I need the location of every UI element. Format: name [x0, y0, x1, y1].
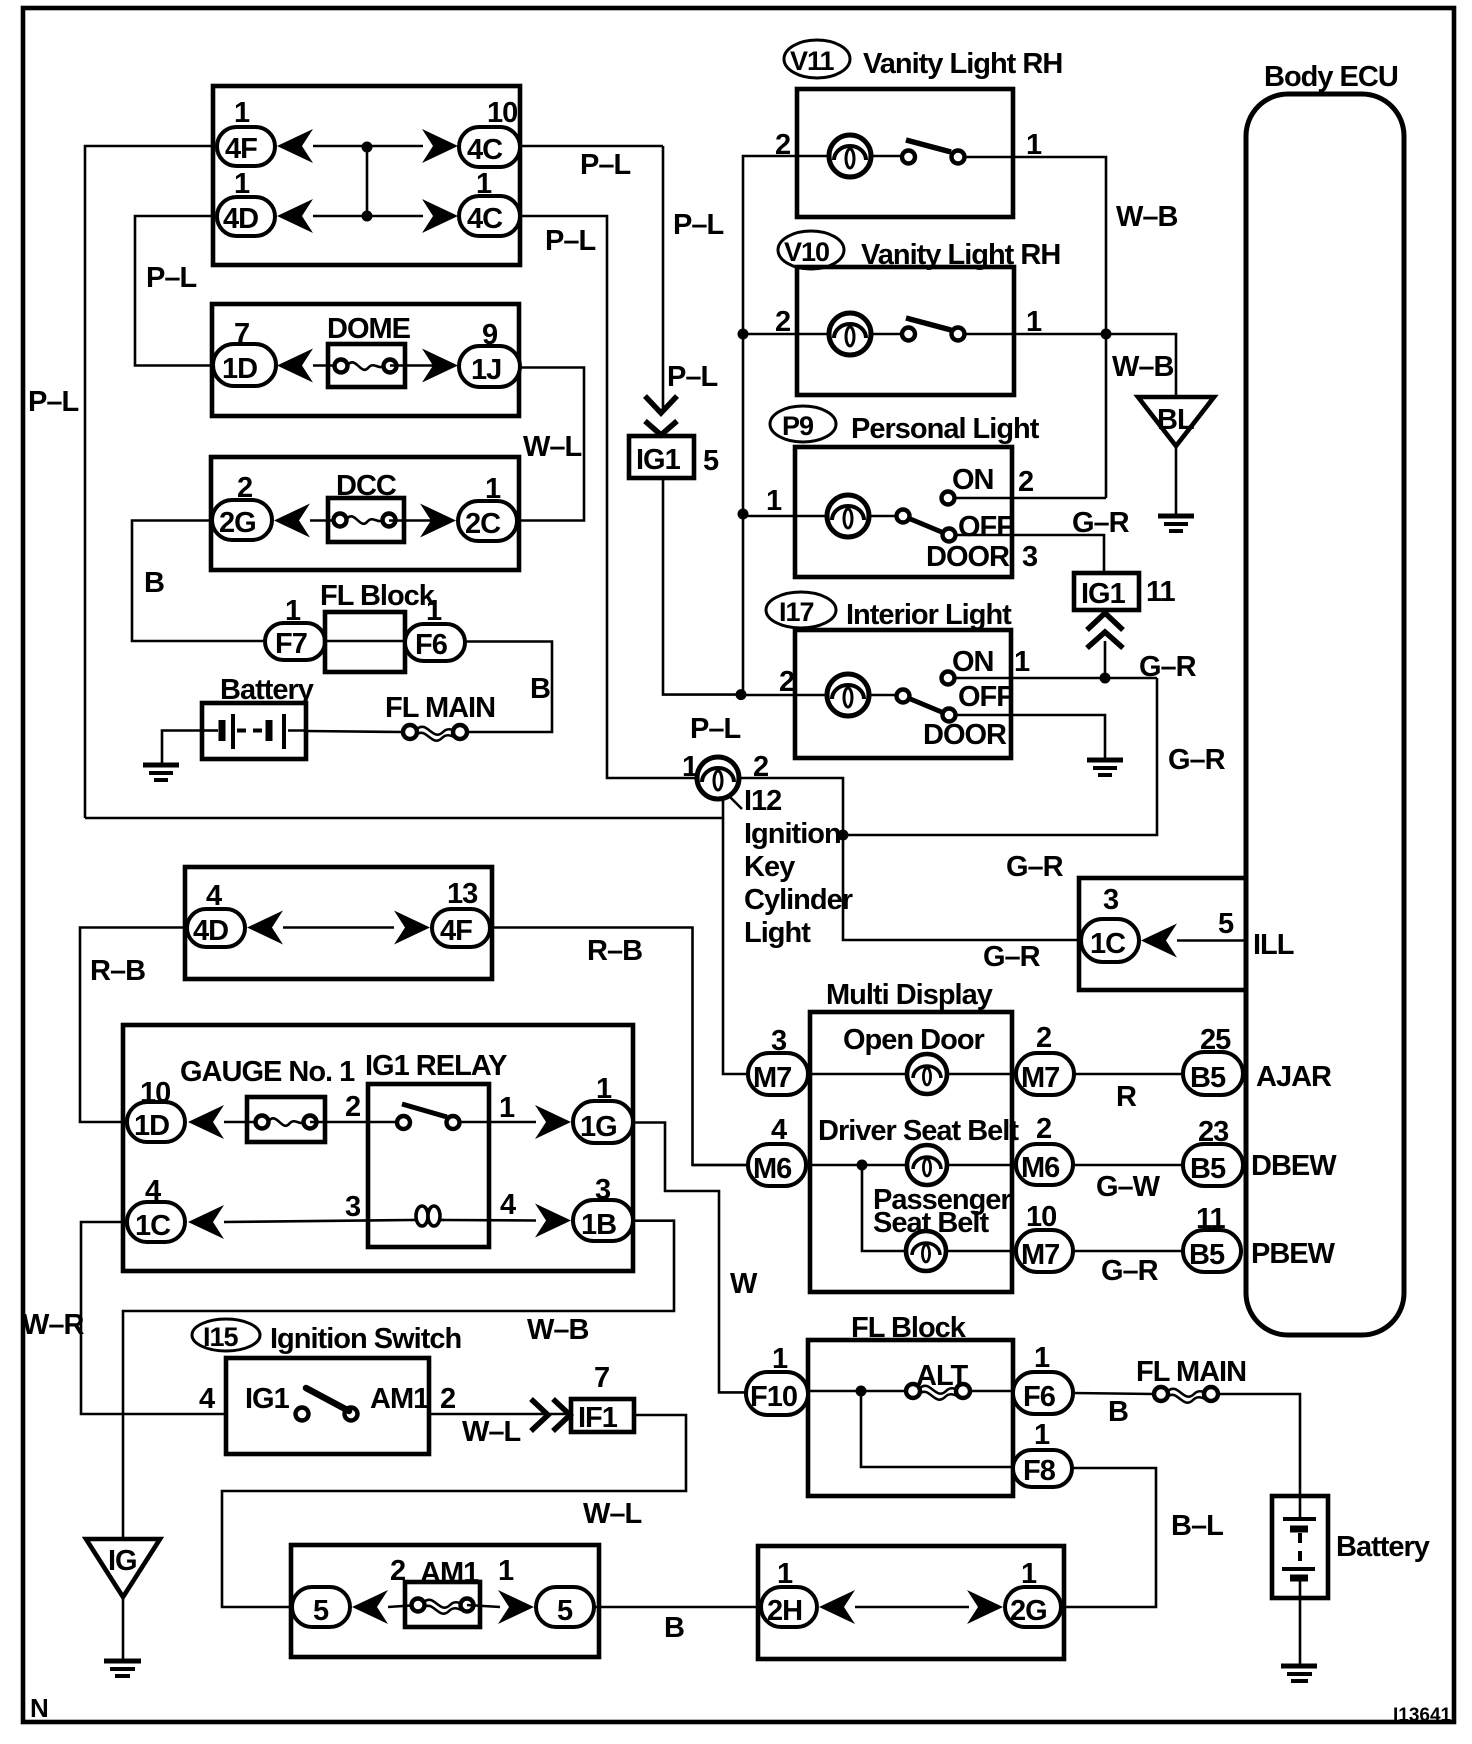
relay switch	[397, 1104, 460, 1129]
arrow into 2C	[420, 504, 456, 538]
svg-text:P–L: P–L	[580, 149, 630, 181]
SEC-TOPLEFT	[28, 86, 723, 818]
connector 1J pin 9	[459, 319, 520, 387]
svg-text:R–B: R–B	[90, 955, 145, 987]
arrow into 1D	[277, 349, 313, 383]
connector M7 pin 2 row1	[1016, 1022, 1074, 1095]
label G-R pbew	[1101, 1255, 1159, 1287]
svg-text:P9: P9	[782, 411, 814, 441]
wire 1D to fuse	[313, 364, 341, 367]
svg-text:5: 5	[1218, 908, 1234, 940]
connector M7 pin 3	[748, 1025, 808, 1095]
SEC-RELAY	[22, 867, 758, 1676]
arrow chevrons into IG1	[645, 396, 677, 435]
svg-text:7: 7	[594, 1362, 609, 1394]
svg-text:3: 3	[1022, 541, 1038, 573]
svg-text:V10: V10	[784, 237, 829, 267]
wire P9 ON pin2 to W-B	[955, 497, 1106, 500]
connector IG1 pin 5	[629, 436, 719, 478]
svg-text:W–L: W–L	[462, 1416, 521, 1448]
label W-B lower	[1112, 351, 1174, 383]
wire V11 pin1 W-B down	[1013, 157, 1106, 498]
fuse GAUGE No.1	[247, 1097, 325, 1142]
wire I17 pin2 to bus	[741, 694, 795, 697]
label I15 Ignition Switch	[192, 1319, 461, 1355]
label ON I17	[952, 646, 994, 678]
wire IG1 11 to junction	[1104, 641, 1107, 678]
label Battery right	[1336, 1531, 1430, 1563]
FL block body top	[325, 612, 405, 672]
ground IG triangle	[86, 1539, 160, 1660]
svg-text:10: 10	[487, 97, 517, 129]
svg-text:P–L: P–L	[28, 386, 78, 418]
svg-text:F8: F8	[1023, 1455, 1056, 1487]
label B fl main	[1108, 1396, 1128, 1428]
wire P-L down to IG1 connector	[662, 146, 665, 412]
switch V11	[871, 140, 1013, 164]
arrow into 1B	[535, 1204, 571, 1238]
label pin2 I12	[753, 751, 768, 783]
arrow into 1C relay	[188, 1205, 224, 1239]
SEC-MID	[629, 146, 1157, 973]
svg-text:P–L: P–L	[673, 209, 723, 241]
svg-text:F10: F10	[750, 1381, 797, 1413]
label W-L to IF1	[462, 1416, 521, 1448]
svg-text:4F: 4F	[440, 915, 472, 947]
svg-text:2: 2	[345, 1091, 360, 1123]
wire F6 to FL MAIN bottom	[1073, 1393, 1154, 1394]
label G-R vertical	[1168, 744, 1226, 776]
arrow into 2G	[274, 504, 310, 538]
svg-text:R: R	[1116, 1081, 1137, 1113]
svg-text:B: B	[144, 567, 164, 599]
svg-text:4F: 4F	[225, 133, 257, 165]
label W-L	[523, 431, 582, 463]
svg-text:1G: 1G	[580, 1111, 617, 1143]
label pin1 V10	[1026, 306, 1042, 338]
ground BL triangle	[1138, 397, 1214, 516]
svg-text:Multi Display: Multi Display	[826, 979, 993, 1011]
lamp driver seat belt	[907, 1145, 947, 1185]
svg-text:M7: M7	[753, 1062, 791, 1094]
svg-text:1: 1	[766, 485, 782, 517]
arrow into 1C ILL	[1141, 924, 1177, 958]
wire coil to 1B	[443, 1219, 536, 1222]
node junction row2	[362, 211, 373, 222]
svg-text:B5: B5	[1190, 1153, 1226, 1185]
svg-text:I13641: I13641	[1393, 1705, 1452, 1726]
label pin2 P9	[1018, 466, 1033, 498]
junction block 2H-2G box	[758, 1546, 1064, 1659]
ground symbol battery right	[1281, 1666, 1317, 1681]
svg-text:4C: 4C	[467, 134, 503, 166]
label OFF P9	[958, 511, 1013, 543]
connector F8 pin 1	[1013, 1419, 1072, 1487]
wire 1B W-B return to IG	[123, 1221, 674, 1539]
relay assembly box	[123, 1025, 633, 1271]
node junction row1	[362, 142, 373, 153]
label pin1 relay	[499, 1092, 515, 1124]
connector 2C pin 1	[458, 473, 517, 541]
svg-text:Vanity Light RH: Vanity Light RH	[863, 48, 1062, 80]
label ALT	[916, 1360, 969, 1392]
ground symbol BL	[1158, 516, 1194, 531]
wire IF1 to AM1 fuse W-L	[222, 1415, 686, 1607]
label AM1 terminal	[370, 1383, 429, 1415]
svg-text:B5: B5	[1190, 1062, 1226, 1094]
relay IG1 box	[368, 1084, 489, 1247]
connector 1B pin 3	[573, 1174, 633, 1241]
svg-text:F6: F6	[415, 629, 448, 661]
svg-text:1J: 1J	[471, 354, 501, 386]
wire 1C to ignition switch W-R	[81, 1222, 226, 1414]
fusible link FL MAIN bottom	[1154, 1387, 1218, 1403]
DCC fuse block box	[211, 457, 519, 570]
label FL MAIN	[385, 692, 495, 724]
svg-text:2: 2	[440, 1383, 455, 1415]
svg-text:IF1: IF1	[578, 1402, 618, 1434]
wire lamp to M7 pin2	[946, 1073, 1016, 1076]
svg-text:AM1: AM1	[370, 1383, 429, 1415]
wire V11 pin2 to P-L bus	[743, 156, 797, 695]
svg-text:IG1: IG1	[636, 444, 681, 476]
wire lamp to M6 pin2	[946, 1164, 1016, 1167]
label R	[1116, 1081, 1137, 1113]
connector 4F pin 13	[432, 878, 490, 947]
arrow into 4D lower	[247, 911, 283, 945]
wire 4D to 4C row2	[313, 215, 423, 218]
label I12 Ignition Key Cylinder Light	[744, 785, 853, 949]
svg-text:1C: 1C	[1090, 928, 1126, 960]
svg-text:4C: 4C	[467, 203, 503, 235]
wire fuse to relay contact	[310, 1121, 398, 1124]
arrow into 4F lower	[394, 911, 430, 945]
svg-text:M6: M6	[753, 1153, 792, 1185]
battery B2	[1272, 1496, 1328, 1598]
svg-text:1D: 1D	[222, 353, 257, 385]
label pin2 V11	[775, 129, 790, 161]
label B DCC drop	[144, 567, 164, 599]
wire FL MAIN to battery	[1218, 1394, 1300, 1496]
svg-text:4: 4	[199, 1383, 215, 1415]
connector M6 pin 4	[748, 1114, 806, 1186]
svg-text:P–L: P–L	[545, 225, 595, 257]
connector 2H pin 1	[761, 1558, 817, 1627]
node FL block junction	[856, 1386, 867, 1397]
svg-text:FL MAIN: FL MAIN	[1136, 1356, 1246, 1388]
ignition switch contacts	[296, 1388, 358, 1421]
label G-R I17	[1139, 651, 1197, 683]
vanity light V10 box	[797, 267, 1014, 395]
label P-L I12	[690, 713, 740, 745]
wire 4F right R-B down to M6	[492, 928, 748, 1166]
svg-text:2: 2	[779, 666, 794, 698]
svg-text:2C: 2C	[465, 508, 501, 540]
svg-text:1C: 1C	[135, 1210, 171, 1242]
label pin1 AM1	[498, 1555, 514, 1587]
connector IG1 pin 11	[1074, 573, 1176, 610]
wire P9 pin1 to bus	[743, 515, 795, 518]
ignition switch I15 box	[226, 1358, 429, 1454]
label FL Block top	[320, 580, 436, 612]
wire 1D to GAUGE fuse	[224, 1121, 262, 1124]
label P9 Personal Light	[770, 406, 1040, 445]
ground symbol I17	[1087, 760, 1123, 775]
label IG1 terminal	[245, 1383, 290, 1415]
label R-B left	[90, 955, 145, 987]
connector 4C pin 10	[459, 97, 520, 167]
svg-text:W–B: W–B	[527, 1314, 589, 1346]
svg-text:I12: I12	[744, 785, 781, 817]
vanity light V11 box	[797, 89, 1013, 217]
wire junction down to F8	[861, 1391, 1013, 1467]
wire branch to passenger lamp	[862, 1165, 908, 1251]
arrow into 1D relay	[188, 1105, 224, 1139]
connector 1G pin 1	[573, 1073, 633, 1143]
label pin5 ILL	[1218, 908, 1234, 940]
junction block J/B box 4F-4C	[213, 86, 520, 265]
label pin1 V11	[1026, 129, 1042, 161]
wire 4F to 4C row1	[313, 145, 423, 148]
svg-text:B–L: B–L	[1171, 1510, 1223, 1542]
label FL Block bottom	[851, 1312, 967, 1344]
wire V10 pin1 to W-B junction	[1014, 333, 1106, 336]
wire M6 to lamp row2	[806, 1164, 909, 1167]
svg-text:AJAR: AJAR	[1256, 1061, 1332, 1093]
personal light P9 box	[795, 447, 1012, 577]
svg-text:W–R: W–R	[22, 1309, 85, 1341]
svg-text:B: B	[664, 1612, 684, 1644]
connector 1D pin 7	[213, 318, 276, 386]
svg-text:W–L: W–L	[583, 1498, 642, 1530]
wire fuse to 1J	[390, 364, 433, 367]
svg-text:Ignition Switch: Ignition Switch	[270, 1323, 461, 1355]
svg-text:OFF: OFF	[958, 681, 1013, 713]
arrow into 2H	[819, 1590, 855, 1624]
svg-text:Light: Light	[744, 917, 811, 949]
label DOOR P9	[926, 541, 1010, 573]
svg-text:2H: 2H	[767, 1595, 802, 1627]
svg-text:B: B	[1108, 1396, 1128, 1428]
wire 4D left R-B down to 1D	[80, 928, 187, 1123]
wire 4C row2 right to I12 drop	[520, 216, 697, 778]
svg-text:2G: 2G	[1010, 1595, 1047, 1627]
svg-text:W–B: W–B	[1112, 351, 1174, 383]
wire 5 to 2H B	[594, 1606, 761, 1609]
connector 4D pin 4	[187, 880, 245, 947]
wire G-R branch to interior light	[843, 678, 1157, 835]
label pin2 relay	[345, 1091, 360, 1123]
wire relay contact to 1G	[459, 1121, 536, 1124]
label B-L	[1171, 1510, 1223, 1542]
node I12 G-R junction	[838, 830, 849, 841]
label W	[730, 1268, 758, 1300]
wire R-B to M6 pin4	[692, 1164, 748, 1167]
wire M7 to lamp	[808, 1073, 909, 1076]
svg-text:5: 5	[703, 445, 719, 477]
svg-text:G–R: G–R	[1139, 651, 1197, 683]
wire P-L bottom bus	[85, 798, 723, 818]
node seat belt branch	[857, 1160, 868, 1171]
wire fuse to 2C	[389, 519, 431, 522]
lamp P9	[795, 495, 869, 537]
lamp I12 ignition key cylinder light	[697, 757, 739, 799]
label DBEW	[1251, 1150, 1337, 1182]
svg-text:I17: I17	[779, 597, 814, 627]
label GAUGE No. 1	[180, 1056, 355, 1088]
DOME fuse block box	[212, 304, 519, 416]
label pin1 I17	[1014, 646, 1030, 678]
label B bottom	[664, 1612, 684, 1644]
svg-text:G–R: G–R	[1006, 851, 1064, 883]
wire coil row left 1C	[224, 1220, 411, 1222]
svg-text:IG1 RELAY: IG1 RELAY	[365, 1050, 507, 1082]
svg-text:W–L: W–L	[523, 431, 582, 463]
wire 2H to 2G	[855, 1606, 969, 1609]
connector 1C pin 3 ILL	[1081, 884, 1139, 962]
connector block 1C ILL box	[1079, 878, 1246, 990]
Body ECU outline	[1246, 61, 1404, 1335]
svg-text:1: 1	[682, 751, 698, 783]
svg-text:1: 1	[498, 1555, 514, 1587]
wire junction vertical	[366, 147, 369, 216]
svg-text:G–R: G–R	[983, 941, 1041, 973]
connector M7 pin 10	[1016, 1201, 1073, 1272]
connector B5 pin 23	[1183, 1116, 1243, 1186]
svg-text:Interior Light: Interior Light	[846, 599, 1012, 631]
wire 1G to F10 W	[633, 1123, 748, 1393]
label P-L left edge	[28, 386, 78, 418]
label V10 Vanity Light RH	[778, 231, 1060, 271]
svg-text:M7: M7	[1021, 1239, 1059, 1271]
arrow into 4C row2	[422, 199, 458, 233]
wire I12 pin2 G-R	[739, 778, 1082, 940]
svg-text:ON: ON	[952, 464, 994, 496]
svg-text:BL: BL	[1157, 404, 1194, 436]
label G-R to ILL	[983, 941, 1041, 973]
fusible link ALT	[906, 1384, 970, 1400]
label pin4 IG1	[199, 1383, 215, 1415]
battery B1	[202, 703, 306, 759]
multi display box	[810, 1012, 1012, 1292]
wire I17 ON pin1 G-R	[955, 677, 1157, 680]
wire 4F left P-L	[85, 146, 213, 818]
label OFF I17	[958, 681, 1013, 713]
svg-text:G–R: G–R	[1101, 1255, 1159, 1287]
svg-text:G–W: G–W	[1096, 1171, 1161, 1203]
wire battery to ground	[1299, 1598, 1302, 1666]
svg-text:Driver Seat Belt: Driver Seat Belt	[818, 1115, 1019, 1147]
label G-R P9	[1072, 507, 1130, 539]
connector F6 pin 1 bottom	[1013, 1342, 1073, 1414]
svg-text:PBEW: PBEW	[1251, 1238, 1336, 1270]
svg-text:3: 3	[1103, 884, 1119, 916]
SEC-BOTTOM	[192, 1312, 1430, 1681]
svg-text:5: 5	[313, 1595, 329, 1627]
connector 2G pin 2	[212, 472, 272, 540]
svg-text:2: 2	[1018, 466, 1033, 498]
label B battery feed	[530, 673, 550, 705]
label V11 Vanity Light RH	[784, 40, 1062, 80]
connector 5 right	[536, 1587, 594, 1627]
arrow into 1G	[535, 1105, 571, 1139]
wire M6 to B5 G-W	[1073, 1164, 1183, 1167]
svg-text:M7: M7	[1021, 1062, 1059, 1094]
svg-text:FL Block: FL Block	[320, 580, 436, 612]
svg-text:G–R: G–R	[1072, 507, 1130, 539]
svg-text:V11: V11	[790, 46, 835, 76]
svg-text:OFF: OFF	[958, 511, 1013, 543]
SEC-MULTI	[692, 818, 1337, 1292]
label IG1 RELAY	[365, 1050, 507, 1082]
connector B5 pin 11	[1183, 1203, 1241, 1272]
SEC-ECU	[1079, 61, 1404, 1335]
wire 2G to B-L riser	[1061, 1468, 1156, 1607]
label P-L row2	[545, 225, 595, 257]
wire M7 to B5 R	[1074, 1073, 1183, 1076]
label R-B right	[587, 935, 642, 967]
switch V10	[871, 318, 1014, 341]
switch P9	[869, 492, 956, 542]
interior light I17 box	[795, 630, 1011, 758]
connector 4D pin 1	[217, 168, 275, 236]
svg-text:1: 1	[499, 1092, 515, 1124]
label PBEW	[1251, 1238, 1336, 1270]
label W-B return	[527, 1314, 589, 1346]
arrow into 4D	[277, 199, 313, 233]
label Open Door	[843, 1024, 985, 1056]
wire 1C to ECU pin 5	[1177, 939, 1246, 942]
svg-text:DBEW: DBEW	[1251, 1150, 1337, 1182]
label pin3 relay	[345, 1191, 361, 1223]
svg-text:1: 1	[1014, 646, 1030, 678]
label P-L IG1 drop lower	[667, 361, 717, 393]
wire 2G left down B	[132, 521, 265, 642]
node I17 bus	[736, 689, 747, 700]
wire 2G to fuse DCC	[310, 519, 340, 522]
junction block box 4D-4F lower	[185, 867, 492, 979]
lamp passenger seat belt	[906, 1231, 946, 1271]
svg-text:ILL: ILL	[1253, 929, 1294, 961]
arrow chevrons into IG1 11	[1087, 613, 1123, 648]
svg-text:2: 2	[1036, 1113, 1051, 1145]
svg-text:4: 4	[771, 1114, 787, 1146]
svg-text:3: 3	[345, 1191, 361, 1223]
svg-text:11: 11	[1146, 576, 1176, 608]
label I17 Interior Light	[766, 592, 1012, 631]
svg-text:2: 2	[1036, 1022, 1051, 1054]
svg-text:1B: 1B	[581, 1209, 616, 1241]
label Driver Seat Belt	[818, 1115, 1019, 1147]
connector F10 pin 1	[746, 1343, 808, 1415]
node P9 bus	[738, 509, 749, 520]
svg-text:Ignition: Ignition	[744, 818, 841, 850]
connector F6 pin 1	[405, 595, 465, 661]
label pin1 I12	[682, 751, 698, 783]
svg-text:1: 1	[1034, 1342, 1050, 1374]
label G-W	[1096, 1171, 1161, 1203]
svg-text:4D: 4D	[223, 203, 258, 235]
svg-text:DOOR: DOOR	[923, 719, 1007, 751]
label Passenger Seat Belt	[873, 1184, 1011, 1239]
relay coil	[411, 1206, 444, 1226]
svg-text:W: W	[730, 1268, 758, 1300]
connector IF1 pin 7	[571, 1362, 634, 1434]
label pin1 P9	[766, 485, 782, 517]
wire P9 DOOR pin3 G-R to IG1	[955, 535, 1104, 573]
arrow into 5 left	[352, 1590, 388, 1624]
wire F10 to ALT fuse	[808, 1390, 908, 1393]
